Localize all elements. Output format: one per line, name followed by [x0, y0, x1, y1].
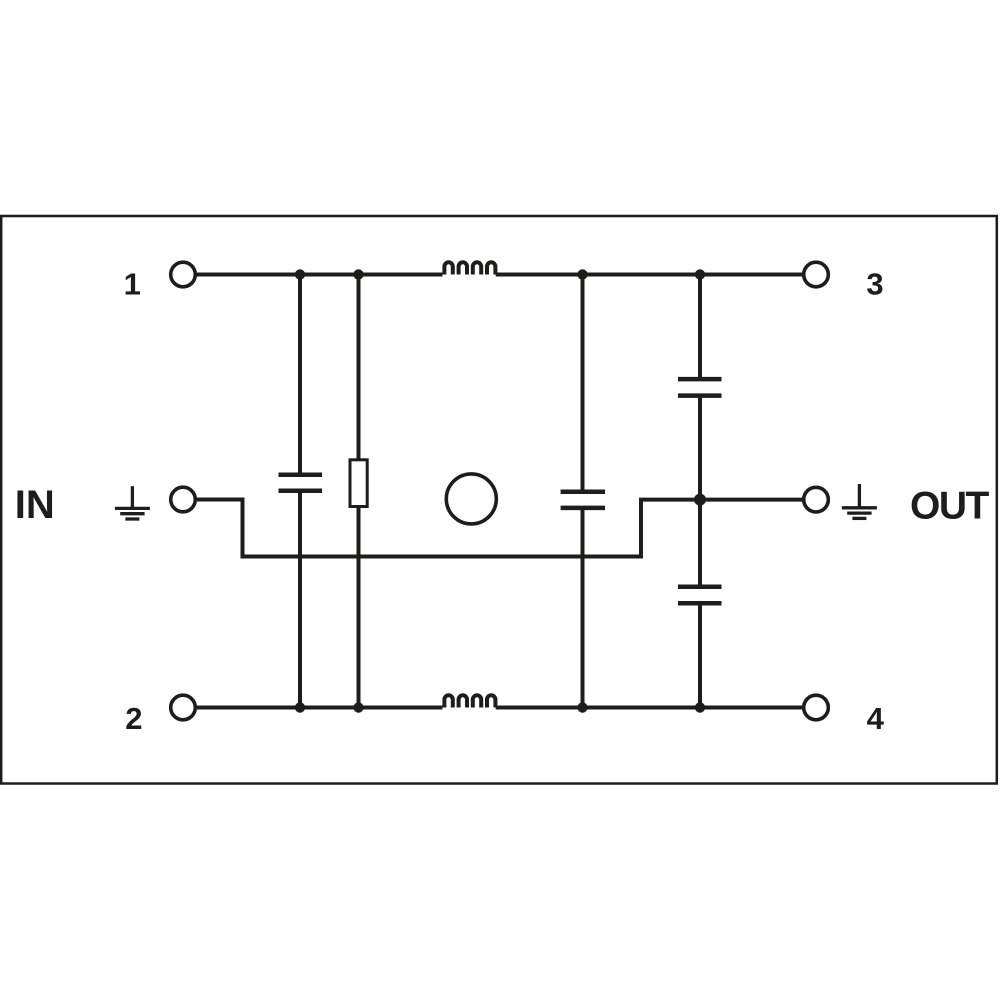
svg-text:2: 2	[125, 701, 142, 736]
wire IN feed-through path	[196, 500, 804, 557]
terminal 4	[804, 695, 829, 720]
wire top rail left segment (terminal 1 to L1)	[196, 273, 443, 277]
terminal OUT	[804, 487, 829, 512]
inductor L1	[444, 262, 495, 274]
ground symbol at OUT	[842, 484, 877, 518]
resistor R1	[350, 460, 367, 507]
svg-text:OUT: OUT	[910, 484, 990, 527]
node dot top rail x=358.5	[353, 269, 363, 279]
ground symbol at IN	[115, 486, 150, 519]
inductor L2	[444, 695, 495, 707]
wire branch x=700 lower (C4 to bottom rail)	[698, 606, 702, 708]
wire branch x=300 lower	[298, 493, 302, 708]
capacitor C4	[678, 587, 722, 604]
svg-text:3: 3	[866, 267, 883, 302]
wire top rail right segment (L1 to terminal 3)	[496, 273, 804, 277]
node dot bottom rail x=300	[295, 702, 305, 712]
terminal 3	[804, 262, 829, 287]
wire bottom rail left segment (terminal 2 to L2)	[196, 706, 443, 710]
wire branch x=700 (OUT node to C4)	[698, 500, 702, 585]
wire branch x=582.5 upper	[581, 275, 585, 490]
schematic outline box	[1, 216, 997, 784]
wire branch x=582.5 lower	[581, 510, 585, 708]
node dot bottom rail x=582.5	[577, 702, 587, 712]
wire bottom rail right segment (L2 to terminal 4)	[496, 706, 804, 710]
node dot OUT line x=700	[694, 494, 706, 506]
wire branch x=358.5 lower	[357, 507, 361, 708]
capacitor C3	[678, 379, 722, 396]
svg-text:4: 4	[867, 701, 885, 736]
terminal IN	[171, 487, 196, 512]
svg-text:1: 1	[124, 267, 141, 302]
wire branch x=358.5 upper	[357, 275, 361, 460]
wire branch x=300 upper	[298, 275, 302, 473]
terminal 2	[171, 695, 196, 720]
node dot bottom rail x=700	[695, 702, 705, 712]
capacitor C2	[561, 492, 605, 508]
node dot top rail x=700	[695, 269, 705, 279]
svg-text:IN: IN	[15, 483, 55, 527]
wire branch x=700 upper	[698, 275, 702, 378]
node dot top rail x=300	[295, 269, 305, 279]
wire branch x=700 middle (C3 to OUT node)	[698, 398, 702, 500]
terminal 1	[171, 262, 196, 287]
choke core circle	[446, 474, 496, 524]
node dot bottom rail x=358.5	[353, 702, 363, 712]
capacitor C1	[279, 475, 323, 491]
node dot top rail x=582.5	[577, 269, 587, 279]
